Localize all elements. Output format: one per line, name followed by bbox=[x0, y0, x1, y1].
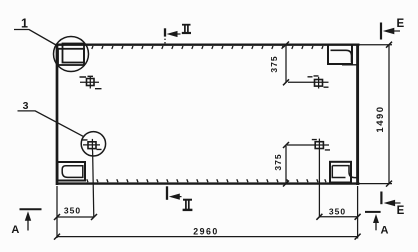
svg-text:E: E bbox=[397, 205, 405, 217]
svg-text:E: E bbox=[396, 18, 404, 30]
slab outline bottom edge bbox=[56, 179, 360, 183]
corner bracket bottom-right bbox=[330, 162, 358, 183]
anchor bolt bottom-right bbox=[287, 139, 330, 152]
detail label 3 bbox=[18, 100, 85, 137]
corner bracket bottom-left bbox=[58, 162, 86, 181]
section marker II bottom bbox=[167, 186, 192, 210]
detail balloon 1 circle bbox=[54, 37, 89, 72]
dimension 350 bottom-right bbox=[316, 207, 360, 220]
slab outline right edge bbox=[356, 44, 359, 185]
svg-text:375: 375 bbox=[273, 153, 283, 170]
svg-text:2960: 2960 bbox=[193, 226, 219, 236]
slab outline left edge bbox=[56, 44, 59, 185]
svg-text:A: A bbox=[381, 225, 389, 237]
extension line right edge below slab bbox=[357, 186, 359, 239]
svg-text:A: A bbox=[11, 224, 19, 236]
section marker A bottom-left bbox=[11, 209, 41, 236]
anchor bolt bottom-left bbox=[83, 139, 102, 151]
section marker A bottom-right bbox=[365, 212, 389, 237]
dimension 375 top-right bbox=[269, 42, 289, 86]
extension line from bolt 3 down to 350 dimension bbox=[93, 151, 94, 218]
dimension 2960 bottom bbox=[54, 226, 361, 239]
dimension 350 bottom-left bbox=[54, 206, 97, 221]
slab outline top edge bbox=[56, 45, 360, 49]
svg-text:350: 350 bbox=[64, 206, 81, 216]
section marker E bottom-right bbox=[381, 192, 404, 217]
dimension 375 bottom-right bbox=[273, 142, 289, 187]
dimension 1490 right side bbox=[360, 42, 393, 187]
corner bracket top-left bbox=[58, 44, 84, 66]
section marker II top bbox=[165, 25, 191, 44]
svg-text:3: 3 bbox=[23, 100, 29, 112]
svg-text:350: 350 bbox=[329, 207, 346, 217]
svg-text:375: 375 bbox=[269, 55, 279, 72]
section marker E top-right bbox=[381, 18, 404, 40]
extension line left edge below slab bbox=[56, 186, 58, 238]
detail balloon 3 circle bbox=[81, 132, 105, 156]
anchor bolt top-left bbox=[80, 76, 102, 88]
corner bracket top-right bbox=[328, 45, 358, 65]
detail label 1 bbox=[14, 17, 56, 46]
extension line from bolt down to 350 right dimension bbox=[318, 152, 320, 218]
svg-text:1490: 1490 bbox=[375, 105, 386, 132]
svg-text:1: 1 bbox=[21, 17, 28, 31]
anchor bolt top-right bbox=[288, 76, 329, 89]
